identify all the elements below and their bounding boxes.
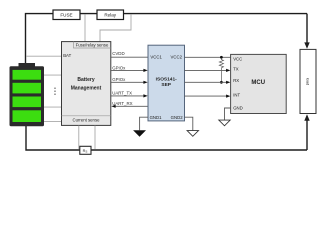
wire cell tap 3	[44, 120, 62, 122]
wire BAT tap	[26, 55, 62, 57]
ground MCU (open)	[219, 120, 230, 126]
svg-text:GPIOx: GPIOx	[112, 77, 126, 82]
wire fuse sense	[84, 14, 86, 41]
battery pack BT1	[10, 63, 45, 126]
relay K1	[97, 10, 124, 20]
svg-text:GND1: GND1	[150, 115, 163, 120]
svg-text:FUSE: FUSE	[60, 12, 72, 17]
load block	[300, 49, 316, 113]
node VCC junction	[220, 56, 223, 59]
svg-text:VCC: VCC	[233, 56, 242, 61]
wire battery+ top bus	[26, 14, 308, 65]
node RX junction	[220, 81, 223, 84]
arrow into load top	[304, 42, 309, 48]
wire UART_TX	[111, 91, 148, 98]
wire UART_RX	[111, 101, 148, 108]
svg-text:load: load	[306, 78, 311, 86]
wire ISO to MCU RX	[185, 81, 231, 84]
wire current sense tap left	[78, 126, 80, 150]
fuse F1	[53, 10, 80, 20]
svg-text:Battery: Battery	[77, 77, 94, 83]
ground GND1 (filled)	[133, 130, 146, 136]
wire GPIOx 1	[111, 65, 148, 72]
wire battery- bottom bus	[26, 118, 307, 150]
svg-text:SEP: SEP	[161, 82, 171, 88]
svg-text:VCC1: VCC1	[150, 55, 162, 60]
svg-text:Management: Management	[71, 86, 102, 92]
wire CVDD	[111, 51, 148, 57]
svg-text:GND: GND	[233, 106, 243, 111]
svg-text:BAT: BAT	[63, 53, 71, 58]
arrow into load bottom	[304, 114, 309, 120]
wire GND2	[185, 117, 193, 130]
svg-text:ISOS141-: ISOS141-	[156, 76, 177, 82]
svg-text:TX: TX	[233, 66, 239, 71]
svg-text:INT: INT	[233, 93, 240, 98]
svg-text:MCU: MCU	[251, 80, 265, 86]
isolator U2 ISOS141-SEP	[148, 45, 185, 121]
shunt resistor Rs	[80, 146, 91, 154]
wire cell tap 2	[44, 106, 62, 108]
svg-text:Relay: Relay	[104, 13, 116, 18]
wire relay sense	[100, 14, 131, 41]
svg-text:Current sense: Current sense	[73, 118, 101, 123]
svg-text:RS: RS	[83, 149, 88, 153]
wire VCC2 to MCU VCC	[185, 56, 231, 58]
wire current sense tap right	[94, 126, 96, 150]
svg-text:UART_TX: UART_TX	[112, 91, 132, 96]
svg-text:GND2: GND2	[171, 115, 184, 120]
wire MCU GND	[225, 108, 231, 120]
svg-text:CVDD: CVDD	[112, 51, 124, 56]
ellipsis cell taps	[54, 88, 55, 95]
svg-text:VCC2: VCC2	[171, 55, 183, 60]
svg-text:UART_RX: UART_RX	[112, 101, 132, 106]
MCU U3	[231, 54, 287, 113]
wire ISO to MCU TX	[185, 69, 231, 72]
svg-text:RX: RX	[233, 78, 239, 83]
wire GPIOx 2	[111, 77, 148, 84]
svg-text:Fuse/relay sense: Fuse/relay sense	[76, 42, 109, 47]
wire ISO to MCU INT	[185, 95, 231, 98]
pull-up resistor R1	[219, 58, 223, 82]
battery management U1	[62, 42, 111, 126]
wire cell tap 1	[44, 74, 62, 76]
ground GND2 (open)	[187, 131, 198, 137]
svg-text:GPIOx: GPIOx	[112, 65, 126, 70]
wire GND1	[140, 117, 148, 130]
